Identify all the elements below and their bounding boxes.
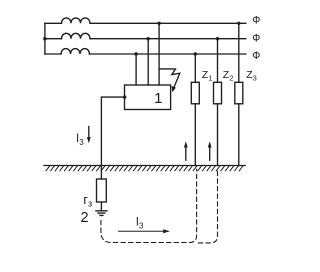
impedance Z2 wire lower xyxy=(217,104,219,166)
impedance Z3 wire upper xyxy=(238,23,240,82)
impedance Z2 body xyxy=(214,82,222,104)
impedance Z2 wire upper xyxy=(217,39,219,83)
svg-text:I3: I3 xyxy=(136,217,144,231)
svg-text:Z2: Z2 xyxy=(223,69,234,83)
impedance Z1 wire lower xyxy=(194,104,196,166)
fault arrow (insulation breakdown bolt) xyxy=(159,69,180,92)
node junction phase3/device xyxy=(134,52,137,55)
wire phase 2 line xyxy=(45,38,246,40)
svg-text:Ф: Ф xyxy=(252,33,260,45)
svg-text:Z1: Z1 xyxy=(202,69,213,83)
wire phase 1 line xyxy=(45,22,246,24)
ground electrode symbol xyxy=(96,211,107,216)
winding L2 (phase 2 coil) xyxy=(62,33,91,38)
wire drop to device pin b xyxy=(147,39,149,85)
node junction phase1/Z3 xyxy=(237,22,240,25)
impedance Z3 body xyxy=(235,82,243,104)
node device enclosure terminal xyxy=(123,95,126,98)
wire drop to device pin c xyxy=(158,23,160,85)
impedance Z1 wire upper xyxy=(194,54,196,82)
winding L1 (phase 1 coil) xyxy=(62,18,91,23)
dashed earth-current path outer loop xyxy=(199,169,218,243)
wire resistor to earth electrode xyxy=(100,202,102,211)
dashed earth-current path inner loop xyxy=(101,169,197,242)
grounding resistor r3 body xyxy=(97,179,107,202)
node junction phase1/device xyxy=(157,22,160,25)
node junction phase2/Z2 xyxy=(216,37,219,40)
node junction phase2/device xyxy=(147,37,150,40)
current arrow up (leakage through Z2) xyxy=(208,141,212,160)
impedance Z1 body xyxy=(191,82,199,104)
current I3 arrow right (earth return current) xyxy=(119,229,170,233)
wire phase 3 line xyxy=(45,53,246,55)
neutral bus wire xyxy=(44,23,46,54)
svg-text:гз: гз xyxy=(83,192,92,208)
svg-text:1: 1 xyxy=(154,90,162,107)
node N (neutral junction) xyxy=(43,37,46,40)
earth surface line xyxy=(44,165,245,167)
current arrow up (leakage through Z1) xyxy=(184,141,188,160)
device box 1 (electrical apparatus) xyxy=(125,85,171,110)
winding L3 (phase 3 coil) xyxy=(61,49,90,54)
impedance Z3 wire lower xyxy=(238,104,240,166)
svg-text:Z3: Z3 xyxy=(246,69,257,83)
svg-text:Ф: Ф xyxy=(252,15,260,27)
node junction phase3/Z1 xyxy=(194,52,197,55)
svg-text:2: 2 xyxy=(81,210,89,226)
svg-text:I3: I3 xyxy=(76,133,84,147)
wire drop to device pin a xyxy=(135,54,137,85)
current I3 arrow down (into earth) xyxy=(87,127,91,144)
wire device enclosure to grounding resistor xyxy=(101,97,124,179)
svg-text:Ф: Ф xyxy=(252,50,260,62)
earth surface hatching xyxy=(46,166,243,171)
